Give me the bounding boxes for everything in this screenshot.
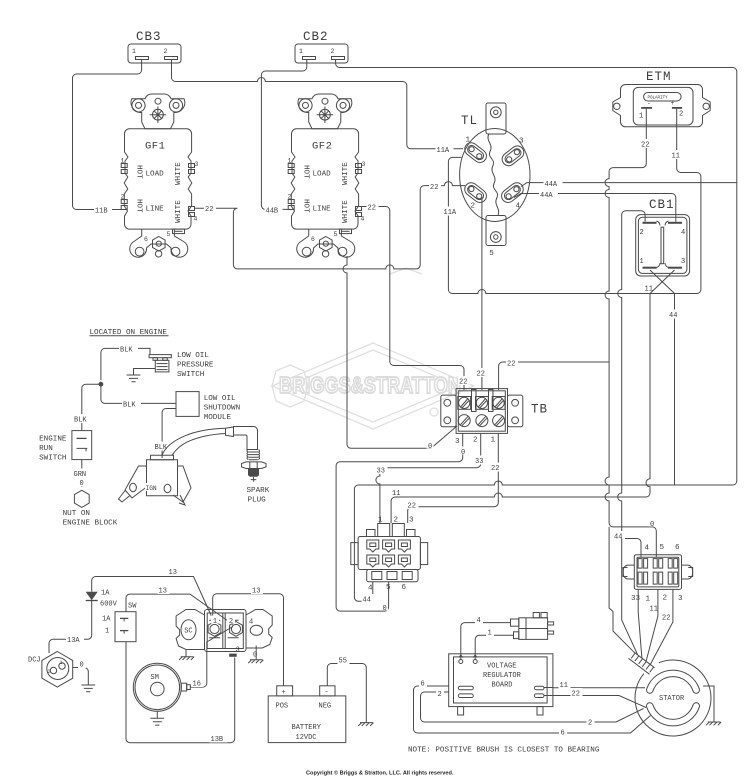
- svg-text:6: 6: [561, 730, 565, 738]
- wire 44B CB2-1 to GF2 LINE: [261, 60, 306, 209]
- svg-text:22: 22: [368, 205, 376, 213]
- svg-text:SPARK: SPARK: [247, 487, 270, 495]
- svg-text:4: 4: [249, 619, 253, 627]
- label 1 at regulator plug: [486, 627, 494, 638]
- svg-text:3: 3: [681, 258, 685, 266]
- nut on engine block: [63, 490, 118, 527]
- svg-text:33: 33: [475, 458, 483, 466]
- svg-text:SWITCH: SWITCH: [177, 371, 204, 379]
- svg-text:2: 2: [48, 669, 51, 675]
- starter motor SM: [133, 663, 190, 711]
- svg-text:2: 2: [121, 194, 125, 201]
- label 44 near connector pin 4: [362, 594, 374, 605]
- svg-text:11: 11: [650, 606, 658, 614]
- ground at stator: [703, 686, 721, 725]
- wire 13 starter contactor to battery POS: [213, 594, 284, 686]
- label 22 on TB column2 lead: [476, 368, 488, 379]
- svg-text:BLK: BLK: [123, 402, 136, 410]
- stator cable hatched sleeve: [629, 652, 655, 675]
- label 22 at GF2 terminal 4: [367, 202, 379, 213]
- svg-text:LINE: LINE: [146, 206, 165, 214]
- label 13B: [210, 734, 228, 745]
- label 22 on TB terminal1 lead: [490, 463, 502, 474]
- label 16: [192, 678, 204, 689]
- wire 2 regulator left to stator bottom: [421, 692, 644, 722]
- svg-text:1: 1: [639, 113, 643, 121]
- low oil pressure switch: [149, 352, 214, 379]
- svg-text:+: +: [282, 689, 286, 697]
- svg-text:3: 3: [519, 138, 524, 146]
- wire BLK module to ignition: [162, 409, 176, 459]
- svg-text:22: 22: [491, 465, 499, 473]
- switch SW: [102, 603, 137, 642]
- wire GRN to nut: [81, 460, 83, 487]
- svg-text:Copyright © Briggs & Stratton,: Copyright © Briggs & Stratton, LLC. All …: [306, 770, 454, 777]
- ground at starter contactor left: [179, 650, 194, 660]
- wire 44A TL slot4 upper to right bus: [521, 183, 737, 187]
- svg-text:HOT: HOT: [135, 165, 143, 179]
- svg-text:3: 3: [195, 161, 199, 168]
- svg-text:1: 1: [640, 258, 644, 266]
- svg-text:GF2: GF2: [312, 141, 332, 153]
- svg-text:MODULE: MODULE: [204, 414, 232, 422]
- crossing wires below CB1: [650, 270, 675, 294]
- svg-text:44: 44: [669, 312, 677, 320]
- wire BLK to low oil shutdown module: [101, 384, 176, 403]
- svg-text:WHITE: WHITE: [175, 162, 183, 185]
- wire 44 CB1 terminal2 to right connector pin 4: [618, 211, 645, 558]
- svg-text:STATOR: STATOR: [659, 695, 685, 703]
- label 0 on GF2 ground wire: [427, 441, 434, 452]
- svg-text:1: 1: [646, 596, 651, 604]
- wire 55 battery NEG to ground: [327, 664, 366, 723]
- svg-text:5: 5: [660, 544, 665, 552]
- svg-text:13: 13: [169, 569, 177, 577]
- svg-text:4: 4: [194, 216, 198, 223]
- GFCI outlet GF2: [288, 94, 366, 257]
- ground at starter motor: [150, 711, 164, 725]
- ignition coil IGN: [119, 455, 192, 505]
- wire 0 DCJ to ground: [73, 668, 89, 686]
- svg-text:PRESSURE: PRESSURE: [177, 362, 214, 370]
- label BLK second: [122, 399, 141, 410]
- circuit breaker CB2: [295, 30, 348, 63]
- svg-text:ETM: ETM: [646, 70, 672, 84]
- svg-text:PLUG: PLUG: [248, 497, 267, 505]
- wire BLK to low oil pressure switch: [101, 348, 150, 380]
- svg-text:ENGINE BLOCK: ENGINE BLOCK: [63, 520, 118, 528]
- wire BLK to engine run switch: [82, 384, 101, 430]
- svg-text:0: 0: [80, 662, 84, 670]
- svg-text:4: 4: [368, 585, 373, 593]
- label 13 third: [251, 585, 263, 596]
- wire 22 right connector pin3 to stator cable: [650, 589, 673, 664]
- label 22 at TL slot2: [429, 182, 441, 193]
- svg-text:44A: 44A: [540, 192, 553, 200]
- label 13 second: [158, 585, 170, 596]
- svg-text:1: 1: [299, 48, 303, 55]
- watermark Briggs & Stratton logo: [272, 268, 474, 429]
- wire 33 right connector pin1 to stator cable: [638, 589, 642, 658]
- wire 6 regulator left to stator bottom: [414, 686, 651, 733]
- wire 44 CB1 terminal3 down to 44 bus: [674, 294, 676, 486]
- svg-text:BLK: BLK: [74, 417, 87, 425]
- svg-text:44: 44: [614, 534, 622, 542]
- svg-text:SHUTDOWN: SHUTDOWN: [204, 405, 240, 413]
- svg-text:1A: 1A: [102, 616, 111, 624]
- svg-text:VOLTAGE: VOLTAGE: [487, 663, 516, 671]
- wire 11 regulator right to stator brush: [544, 687, 645, 689]
- low oil shutdown module: [176, 392, 240, 422]
- svg-text:600V: 600V: [100, 601, 118, 609]
- svg-text:33: 33: [631, 595, 641, 603]
- svg-text:SWITCH: SWITCH: [39, 455, 66, 463]
- svg-text:TB: TB: [531, 403, 548, 417]
- svg-text:11: 11: [392, 490, 400, 498]
- GFCI outlet GF1: [121, 94, 199, 257]
- svg-text:22: 22: [205, 206, 213, 214]
- wire 44A TL slot4 lower to CB1 terminal 4: [514, 194, 676, 222]
- svg-text:ENGINE: ENGINE: [39, 436, 67, 444]
- svg-text:LOW OIL: LOW OIL: [177, 352, 209, 360]
- svg-text:+: +: [671, 100, 675, 107]
- title LOCATED ON ENGINE: [90, 329, 169, 337]
- DC jack DCJ: [28, 652, 73, 688]
- label 13A: [66, 635, 84, 646]
- wire 22 GF2 terminal 4 down to TB column 3: [362, 207, 465, 391]
- label 22 below right connector: [661, 612, 673, 623]
- label 0 near center connector pin 5: [381, 603, 388, 614]
- svg-text:1: 1: [60, 660, 63, 666]
- svg-text:11A: 11A: [444, 209, 457, 217]
- svg-text:NOTE: POSITIVE BRUSH IS CLOSES: NOTE: POSITIVE BRUSH IS CLOSEST TO BEARI…: [408, 747, 600, 755]
- svg-text:2: 2: [471, 203, 476, 211]
- svg-text:2: 2: [640, 229, 644, 237]
- svg-text:3: 3: [678, 595, 683, 603]
- label 6 on bottom run: [559, 727, 567, 738]
- svg-text:1: 1: [213, 618, 217, 626]
- label 11A: [436, 145, 454, 156]
- label 22 on TB column1 wire: [506, 358, 518, 369]
- diode 1A 600V: [86, 590, 118, 636]
- svg-text:22: 22: [572, 691, 580, 699]
- svg-text:SM: SM: [151, 674, 159, 682]
- svg-text:BLK: BLK: [120, 347, 133, 355]
- svg-text:11B: 11B: [95, 208, 108, 216]
- wire 22 TL slot2 to GF1 terminal 4: [195, 182, 466, 269]
- svg-text:55: 55: [339, 658, 347, 666]
- wire 22 ETM pin1 down left side to TB column1 junction and right connector pin 5: [605, 109, 656, 558]
- svg-text:1: 1: [488, 630, 492, 638]
- label 11B: [94, 205, 112, 216]
- label 44 on CB1 terminal3 lead: [668, 310, 680, 321]
- svg-text:SW: SW: [128, 603, 137, 611]
- svg-text:6: 6: [421, 681, 425, 689]
- label 44 near right connector pin 4: [613, 531, 625, 542]
- svg-text:LOAD: LOAD: [146, 171, 165, 179]
- svg-text:BOARD: BOARD: [492, 682, 513, 690]
- wire 11B CB3-1 to GF1 LINE: [73, 60, 142, 210]
- wire 11 ETM pin2 to right bus down to TL slot1 lower (11A): [448, 109, 701, 294]
- svg-text:44B: 44B: [266, 208, 279, 216]
- svg-text:2: 2: [164, 48, 168, 55]
- svg-text:1: 1: [466, 137, 471, 145]
- center 6-pin connector: [351, 517, 428, 593]
- starter contactor SC: [176, 610, 272, 660]
- label 2 at regulator left: [436, 689, 444, 700]
- junction dot on engine run circuit: [99, 382, 104, 387]
- svg-text:5: 5: [489, 250, 494, 258]
- svg-text:0: 0: [428, 443, 432, 451]
- label 33 on TB terminal2 lead: [474, 456, 486, 467]
- svg-text:NEG: NEG: [319, 703, 332, 711]
- wire 44 net: CB2-2 right side down to CB1 area and center connector pin 4: [336, 60, 737, 601]
- label 11 on ETM pin2 wire: [671, 150, 683, 161]
- svg-text:44A: 44A: [545, 181, 558, 189]
- svg-text:2: 2: [588, 720, 592, 728]
- svg-text:22: 22: [507, 361, 515, 369]
- svg-text:11: 11: [560, 682, 568, 690]
- svg-text:11: 11: [672, 153, 680, 161]
- label 22 at regulator right: [571, 688, 583, 699]
- wire 11 CB1 terminal1 to center connector pin 2: [391, 294, 650, 524]
- svg-text:5: 5: [167, 231, 171, 238]
- terminal block TB: [441, 389, 548, 446]
- svg-text:2: 2: [473, 437, 478, 445]
- svg-text:1: 1: [491, 437, 496, 445]
- svg-text:6: 6: [402, 584, 407, 592]
- svg-text:3: 3: [236, 647, 240, 655]
- wire 13 diode to starter contactor terminal 1: [92, 577, 214, 622]
- label 2 on bottom run: [587, 717, 595, 728]
- svg-text:11A: 11A: [437, 147, 450, 155]
- ground at starter contactor right: [248, 646, 263, 664]
- svg-text:22: 22: [430, 184, 438, 192]
- svg-text:2: 2: [679, 111, 683, 119]
- svg-text:TL: TL: [461, 114, 478, 128]
- wire 44 branch down into stator cable: [622, 539, 638, 655]
- label BLK third: [73, 414, 92, 425]
- svg-text:13: 13: [159, 588, 167, 596]
- wire 0 bus branch down into stator cable: [609, 527, 633, 652]
- wire 13 switch top to starter contactor terminal 2: [126, 594, 233, 624]
- wire 1 regulator to plug: [475, 635, 513, 659]
- svg-text:DCJ: DCJ: [28, 657, 41, 665]
- label 11 at regulator right: [559, 680, 571, 691]
- hour meter ETM: [613, 70, 710, 127]
- wire 13B switch bottom to starter contactor terminal 3: [126, 642, 235, 743]
- svg-text:RUN: RUN: [39, 445, 53, 453]
- wire 33 TB terminal 2 to center connector pin 1: [376, 433, 481, 523]
- label 11 near center connector pin 2: [391, 488, 403, 499]
- spark plug: [226, 427, 270, 505]
- svg-text:6: 6: [675, 544, 680, 552]
- ground at battery circuit: [358, 723, 373, 726]
- ground at low oil pressure switch: [127, 369, 156, 382]
- svg-text:2: 2: [229, 618, 233, 626]
- svg-text:CB3: CB3: [136, 30, 162, 44]
- svg-text:16: 16: [193, 681, 201, 689]
- wire 16 starter motor to contactor terminal 2: [190, 627, 233, 688]
- svg-text:4: 4: [681, 229, 685, 237]
- svg-text:CB2: CB2: [303, 30, 329, 44]
- wire 11A CB3-2 to TL 1: [172, 60, 464, 149]
- svg-text:1A: 1A: [101, 590, 110, 598]
- svg-text:WHITE: WHITE: [175, 200, 183, 223]
- label 22 near center connector pin 3: [407, 500, 419, 511]
- svg-text:4: 4: [477, 617, 481, 625]
- svg-text:IGN: IGN: [146, 485, 157, 492]
- label 11A on TL slot1 lower wire: [443, 207, 461, 218]
- svg-text:44: 44: [363, 597, 371, 605]
- stator: [635, 660, 711, 736]
- wire 22 TB terminal 1 to center connector pin 3: [408, 433, 499, 523]
- wire 22 TL slot2 lower down to TB column 2: [481, 198, 483, 391]
- svg-text:22: 22: [408, 503, 416, 511]
- label 44A first: [544, 179, 563, 190]
- svg-text:22: 22: [459, 379, 467, 387]
- wire 0 GF2 ground ear down to TB terminal 3: [343, 256, 457, 448]
- svg-text:CB1: CB1: [649, 198, 675, 212]
- svg-text:HOT: HOT: [135, 199, 143, 213]
- wire 22 TB column1 to right bus: [499, 362, 609, 390]
- label 4 at regulator plug: [475, 615, 483, 626]
- svg-text:3: 3: [455, 438, 460, 446]
- circuit breaker CB1: [636, 198, 690, 276]
- label 55: [338, 655, 350, 666]
- wire 13A diode to DC jack: [49, 635, 92, 653]
- svg-text:-: -: [325, 689, 329, 697]
- svg-text:1: 1: [105, 628, 109, 636]
- svg-text:13: 13: [252, 588, 260, 596]
- svg-text:-: -: [647, 100, 651, 107]
- right 6-pin connector: [623, 544, 693, 604]
- label 0 ring: [78, 478, 86, 489]
- twist-lock receptacle TL: [460, 103, 530, 258]
- svg-text:2: 2: [331, 48, 335, 55]
- svg-text:12VDC: 12VDC: [296, 734, 317, 742]
- label 22 on ETM pin1 wire: [640, 139, 652, 150]
- label 22 on TB column3 lead: [458, 376, 470, 387]
- regulator plug connector: [511, 613, 554, 640]
- label 13 first: [168, 567, 180, 578]
- svg-text:1: 1: [132, 48, 136, 55]
- svg-text:5: 5: [386, 584, 391, 592]
- svg-text:33: 33: [377, 468, 385, 476]
- label 33 near center connector pin 1: [376, 465, 388, 476]
- circuit breaker CB3: [128, 30, 181, 63]
- label BLK fourth: [154, 442, 173, 453]
- svg-text:NUT ON: NUT ON: [63, 510, 90, 518]
- label 11 on CB1 terminal1 lead: [644, 283, 656, 294]
- svg-text:0: 0: [461, 449, 465, 457]
- svg-text:13A: 13A: [67, 637, 80, 645]
- svg-text:22: 22: [641, 142, 649, 150]
- wire 22 regulator right to stator brush: [544, 696, 646, 708]
- voltage regulator board: [449, 654, 553, 715]
- engine run switch: [39, 431, 92, 463]
- battery 12VDC: [268, 686, 346, 743]
- svg-text:BATTERY: BATTERY: [292, 724, 322, 732]
- wire 11 right connector pin2 to stator cable: [646, 589, 658, 661]
- label 6 at regulator left: [419, 678, 427, 689]
- svg-text:6: 6: [144, 236, 148, 243]
- svg-text:22: 22: [477, 371, 485, 379]
- label 0 at DCJ: [78, 659, 86, 670]
- label 22 at GF1 terminal 4: [204, 204, 216, 215]
- svg-text:1: 1: [121, 158, 125, 165]
- svg-text:3: 3: [409, 517, 414, 525]
- svg-text:0: 0: [650, 521, 654, 529]
- label 0 near right connector pin 5: [649, 519, 656, 530]
- label BLK: [119, 344, 138, 355]
- svg-text:SC: SC: [184, 628, 192, 636]
- wire 4 regulator to plug: [461, 623, 511, 660]
- svg-text:REGULATOR: REGULATOR: [483, 672, 522, 680]
- label 44B: [265, 205, 283, 216]
- spark plug lead: [162, 428, 226, 455]
- svg-text:0: 0: [80, 480, 84, 488]
- label 11 below right connector: [649, 603, 661, 614]
- svg-text:GF1: GF1: [145, 141, 165, 153]
- svg-text:2: 2: [438, 691, 442, 699]
- svg-text:POS: POS: [276, 703, 289, 711]
- label 0 on TB terminal 3 lead: [460, 447, 467, 458]
- svg-text:22: 22: [662, 615, 670, 623]
- svg-text:2: 2: [394, 517, 399, 525]
- svg-text:1: 1: [378, 517, 383, 525]
- svg-text:0: 0: [383, 605, 387, 613]
- svg-text:13B: 13B: [211, 736, 224, 744]
- label GRN: [73, 469, 92, 480]
- svg-text:2: 2: [663, 595, 668, 603]
- wire 0 TB terminal 3 to center connector pin 5: [336, 433, 463, 611]
- svg-text:4: 4: [645, 545, 650, 553]
- svg-text:LOW OIL: LOW OIL: [204, 395, 236, 403]
- ground at DCJ: [81, 685, 95, 692]
- svg-text:4: 4: [516, 203, 521, 211]
- label 44A second: [539, 190, 558, 201]
